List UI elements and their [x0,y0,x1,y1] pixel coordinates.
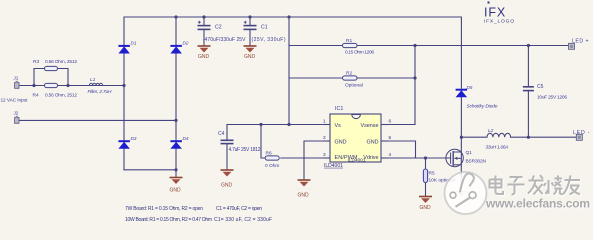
svg-text:IC1: IC1 [335,106,343,112]
svg-text:5: 5 [389,135,392,141]
label D1 [131,40,137,45]
diode D4 [170,141,182,149]
wire R1 line LED+ rail [289,45,569,47]
IFX logo [484,2,514,25]
svg-text:IFX_LOGO: IFX_LOGO [484,18,514,24]
svg-text:C5: C5 [537,84,544,90]
svg-text:J1: J1 [14,76,19,81]
wire J1 input [19,85,124,87]
svg-text:D4: D4 [183,136,189,141]
ground pin2 [298,180,311,199]
svg-text:IFX: IFX [484,6,506,20]
node C5 top junction [527,44,530,47]
svg-text:1: 1 [323,119,326,125]
svg-text:D5: D5 [467,85,473,90]
diode D3 [118,141,129,149]
node VIN branch junction [287,15,290,18]
wire R3 top branch [34,69,68,86]
wire R6 to pin3 [281,157,324,159]
svg-text:4: 4 [389,152,392,158]
label L2 [486,128,509,151]
label R5 [429,171,456,184]
label J1 [14,76,19,81]
wire C2 stub [203,17,205,46]
label D5 [467,85,498,110]
svg-text:4.7uF 25V 1812: 4.7uF 25V 1812 [229,147,261,153]
svg-text:GND: GND [244,54,256,60]
watermark url [485,197,591,212]
connector J2 [15,116,19,124]
node R3R4 right junction [66,84,69,87]
wire Q1 source [460,177,462,192]
label C5 [537,84,567,101]
svg-text:10uF 25V 1206: 10uF 25V 1206 [537,95,567,101]
svg-text:R5: R5 [429,171,435,177]
svg-text:12 VAC Input: 12 VAC Input [1,98,29,104]
svg-text:7W Board: R1 = 0.15 Ohm, R2: 7W Board: R1 = 0.15 Ohm, R2 = open [125,206,203,212]
node R3R4 left junction [32,84,35,87]
svg-text:L2: L2 [488,128,494,134]
wire R5 stub [425,158,427,196]
svg-text:C1: C1 [261,25,268,31]
svg-text:LED +: LED + [572,38,589,44]
wire L2 switch line [461,136,577,138]
label R1 [345,38,374,56]
label D2 [183,40,189,45]
inductor L1 [89,83,102,85]
svg-text:GND: GND [198,54,210,60]
capacitor C2 [198,21,211,30]
svg-text:Vdrive: Vdrive [363,155,378,161]
ground R5 [419,197,432,212]
svg-text:R3: R3 [33,59,39,65]
capacitor C1 [244,21,257,30]
node switch L2 junction [460,136,463,139]
svg-text:R6: R6 [266,151,272,157]
note line 1 [125,206,262,212]
node D2 top junction [174,15,177,18]
svg-text:D3: D3 [131,136,137,141]
connector J1 [15,81,19,89]
node C5 bottom junction [527,136,530,139]
svg-text:C2: C2 [215,25,222,31]
svg-text:C4: C4 [218,131,225,137]
label J2 [14,111,19,116]
svg-text:J2: J2 [14,111,19,116]
resistor R2 [343,76,358,80]
wire J2 input [19,119,176,121]
node sense LED+ junction [413,44,416,47]
label 12 VAC Input [1,98,29,104]
wire D1-D3 column [123,86,125,170]
label ILD4001 inside [348,157,366,163]
wire D2-D4 column [175,17,177,170]
svg-text:EN/PWM: EN/PWM [335,155,359,161]
label R3 [33,59,77,65]
label C1 [252,25,286,44]
op-amp IC1 ILD4001 body [330,114,381,162]
svg-text:GND: GND [367,139,379,145]
svg-text:L1: L1 [90,77,96,83]
svg-text:GND: GND [420,205,432,211]
node C2 top junction [202,15,205,18]
svg-text:Optional: Optional [345,83,363,89]
diode D2 [170,46,182,54]
ground bridge [170,178,183,194]
label C2 [205,25,247,44]
label D3 [131,136,137,141]
svg-text:GND: GND [298,193,310,199]
diode D1 [118,46,129,54]
svg-text:10W Board: R1 = 0.15 Ohm, R2 =: 10W Board: R1 = 0.15 Ohm, R2 = 0.47 Ohm [125,217,212,223]
connector LED- [576,134,582,140]
pin 5 GND [367,135,392,145]
label ILD4001 under [324,163,343,169]
label R4 [33,93,78,99]
wire sense vertical [388,46,415,125]
ground Q1 faint [456,192,466,197]
resistor R5 [423,169,427,183]
label D4 [183,136,189,141]
ground C1 [244,46,257,60]
pin 1 Vs [323,119,341,129]
resistor R4 [45,83,58,87]
svg-text:470uF/330uF 25V: 470uF/330uF 25V [205,37,247,43]
svg-text:Vsense: Vsense [361,123,379,129]
svg-text:R2: R2 [346,71,352,77]
resistor R1 [343,43,358,47]
svg-text:0 Ohm: 0 Ohm [265,163,279,169]
wire pin5 jog [388,141,416,158]
capacitor C5 [523,87,534,91]
svg-text:GND: GND [170,188,182,194]
svg-text:D2: D2 [183,40,189,45]
pin 3 EN/PWM [323,152,358,161]
ground C4 [221,170,234,189]
wire Vs line [227,124,324,126]
svg-text:D1: D1 [131,40,137,45]
label R2 [345,71,363,89]
node R2 end junction [413,76,416,79]
capacitor C4 [221,140,234,143]
resistor R3 [45,66,58,70]
svg-text:LED -: LED - [573,130,590,136]
node AC2 bridge junction [174,119,177,122]
label LED- [573,130,590,136]
svg-text:Vs: Vs [335,123,342,129]
pin 6 Vsense [361,119,392,129]
resistor R6 [265,156,279,160]
label R6 [265,151,279,170]
wire bridge bottom [124,170,176,177]
svg-text:(25V, 330uF): (25V, 330uF) [252,37,286,43]
svg-text:C1 = 470uF, C2 = open: C1 = 470uF, C2 = open [216,206,262,212]
svg-text:3: 3 [323,152,326,158]
svg-text:0.15 Ohm 1206: 0.15 Ohm 1206 [345,50,374,56]
label LED+ [572,38,589,44]
svg-text:0.56 Ohm, 2512: 0.56 Ohm, 2512 [45,59,77,65]
svg-text:C1= 330 uF, C2 = 330uF: C1= 330 uF, C2 = 330uF [214,217,272,223]
wire top rail [124,17,461,86]
svg-text:BSR302N: BSR302N [466,159,487,165]
wire C5 stub [527,46,529,138]
label L1 [88,77,113,95]
transistor Q1 mosfet [446,149,463,166]
node C1 top junction [248,15,251,18]
svg-text:R1: R1 [346,38,352,44]
wire pin4 to gate [388,157,451,159]
wire drain column D5 [460,46,462,177]
watermark logo circle [445,172,487,214]
wire C1 stub [249,17,251,46]
inductor L2 [487,133,511,137]
node gate R5 junction [424,156,427,159]
wire VIN vertical [288,17,290,125]
note line 2 [125,217,272,223]
connector LED+ [569,43,575,49]
watermark chinese text [490,175,582,196]
pin 4 Vdrive [363,152,391,161]
svg-text:GND: GND [221,183,233,189]
wire pin2 to gnd [304,141,324,180]
svg-text:33uH 1.06A: 33uH 1.06A [486,145,509,151]
node AC1 bridge junction [122,84,125,87]
svg-text:ILD4001: ILD4001 [324,163,343,169]
wire C4 stub [226,125,228,170]
svg-text:2: 2 [323,135,326,141]
label IC1 [335,106,343,112]
svg-text:Filter, 2.7uH: Filter, 2.7uH [88,89,113,95]
label C4 [218,131,261,153]
wire R2 line [289,77,415,79]
svg-text:R4: R4 [33,93,39,99]
diode D5 schottky [456,90,468,98]
label Q1 [466,150,487,165]
svg-text:6: 6 [389,119,392,125]
wire R6 drop [261,125,265,159]
svg-text:GND: GND [335,139,347,145]
svg-text:Q1: Q1 [466,150,473,156]
svg-text:0.56 Ohm, 2512: 0.56 Ohm, 2512 [45,93,77,99]
node Vs VIN junction [287,123,290,126]
node bridge gnd junction [174,168,177,171]
node Vs R6 junction [259,123,262,126]
ground C2 [198,46,211,60]
pin 2 GND [323,135,347,145]
svg-text:Schottky Diode: Schottky Diode [467,104,498,110]
svg-text:www.elecfans.com: www.elecfans.com [485,197,590,211]
